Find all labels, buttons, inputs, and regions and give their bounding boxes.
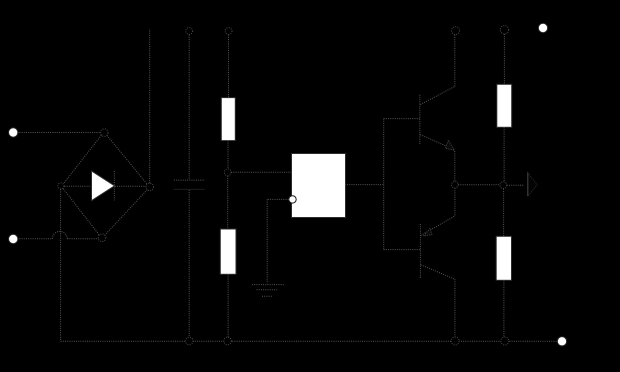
node bridge right corner [146, 183, 154, 191]
node bridge bottom corner [98, 234, 106, 242]
Q2 emitter arrowhead [424, 228, 432, 236]
wire Q1 emitter down [454, 151, 456, 181]
wire J2 toward bridge [17, 238, 52, 240]
diode D1 triangle [92, 171, 115, 201]
wire junction to U1 input [231, 171, 291, 173]
wire Q1 collector up [454, 35, 456, 87]
Q1 emitter arrowhead [445, 140, 454, 150]
wire bubble to ground horizontal [267, 198, 289, 200]
node bridge top corner [100, 129, 108, 137]
output terminal negative [557, 337, 566, 346]
ground symbol [252, 285, 285, 297]
node bridge left corner [58, 183, 64, 189]
node rail Q2 [451, 337, 459, 345]
wire R1 top lead [228, 35, 230, 98]
wire bridge edge bottom-left [63, 189, 99, 235]
wire R1 bottom lead [227, 140, 229, 168]
diode D1 cathode bar [113, 171, 115, 200]
wire U1 output [345, 184, 384, 186]
node rail R4 [501, 337, 509, 345]
wire output junction to arrow [507, 184, 523, 186]
node top rail R3 [500, 26, 508, 34]
wire bridge edge bottom-right [105, 190, 148, 236]
wire base bus vertical [383, 119, 385, 250]
wire hop over DC minus [52, 231, 67, 238]
wire R2 bottom lead [227, 274, 229, 337]
wire Q1 base lead [384, 118, 420, 120]
resistor R1 [221, 98, 235, 141]
wire emitters to output junction [458, 184, 500, 186]
wire C1 branch lower [188, 190, 190, 337]
wire ground lead vertical [266, 199, 268, 283]
node top rail Q1 [452, 27, 460, 35]
wire bridge edge top-right [107, 135, 147, 184]
transistor Q2 collector [421, 265, 455, 279]
node R1-R2 junction [224, 169, 231, 176]
wire diode anode lead [65, 185, 93, 187]
transistor Q1 emitter [420, 135, 455, 150]
resistor R2 [220, 229, 236, 274]
capacitor C1 top plate [174, 179, 205, 181]
inverting bubble on U1 [289, 196, 296, 203]
node rail C1 [186, 337, 194, 345]
wire Q2 emitter up [454, 188, 456, 216]
wire J1 to bridge top [17, 132, 100, 134]
input terminal J1 [9, 128, 18, 137]
wire R3 bottom lead [503, 127, 505, 181]
node top rail B [225, 28, 232, 35]
wire Q2 collector down [454, 279, 456, 336]
output terminal positive [538, 23, 547, 32]
transistor Q1 base bar [419, 95, 421, 144]
node emitter junction [452, 181, 459, 188]
wire Q2 base lead [384, 249, 420, 251]
node top rail A [186, 28, 193, 35]
wire bridge edge top-left [64, 135, 102, 183]
transistor Q1 collector [420, 86, 455, 104]
wire C1 branch upper [188, 35, 190, 180]
node rail R2 [224, 337, 232, 345]
wire R3 top lead [503, 34, 505, 84]
resistor R3 [497, 84, 512, 127]
wire bottom rail [61, 340, 559, 342]
wire R4 bottom lead [503, 280, 505, 336]
wire DC plus up [149, 29, 151, 183]
resistor R4 [496, 236, 511, 280]
transistor Q2 base bar [419, 224, 421, 279]
op-amp U1 box [292, 154, 346, 218]
wire DC minus down [60, 189, 62, 341]
input terminal J2 [9, 234, 18, 243]
wire hop to bridge bottom [67, 238, 98, 240]
wire R2 top lead [227, 176, 229, 229]
capacitor C1 bottom plate [174, 188, 205, 190]
output arrow [528, 173, 537, 196]
wire R4 top lead [503, 189, 505, 236]
wire diode cathode lead [115, 185, 146, 187]
node output junction [500, 182, 507, 189]
transistor Q2 emitter [421, 216, 455, 236]
